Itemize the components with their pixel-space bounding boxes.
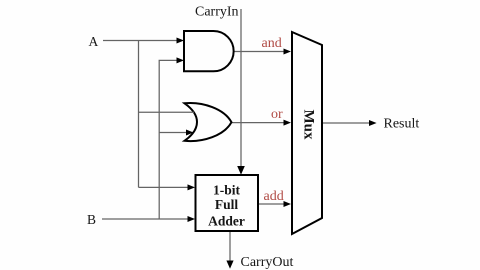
svg-text:add: add [264, 189, 284, 204]
wire B horizontal from label B to Full Adder input 2 [102, 218, 189, 220]
Mux (multiplexer) [292, 32, 322, 234]
svg-text:or: or [271, 107, 283, 122]
arrowhead CarryIn into Full Adder [237, 166, 245, 175]
svg-text:A: A [89, 34, 99, 49]
Full Adder label line 3 [208, 214, 245, 229]
Full Adder label line 1 [213, 183, 241, 198]
1-bit Full Adder box U1 [196, 175, 259, 231]
arrowhead Result [369, 120, 377, 126]
arrowhead and into Mux [284, 49, 292, 55]
svg-text:Result: Result [384, 117, 420, 132]
arrowhead CarryOut [226, 261, 233, 269]
wire and: AND gate output to Mux [233, 51, 284, 53]
svg-text:Adder: Adder [208, 214, 245, 229]
wire A branch to Full Adder input 1 [139, 186, 190, 188]
wire A vertical branch down [138, 41, 140, 188]
wire CarryIn vertical into Full Adder [240, 9, 242, 169]
AND gate [184, 31, 234, 71]
svg-text:Mux: Mux [301, 110, 317, 141]
Mux label [301, 110, 317, 141]
net label or [271, 107, 283, 122]
net label add [264, 189, 284, 204]
OR gate [185, 103, 232, 141]
arrowhead AND input 1 [177, 38, 185, 44]
node Result label [384, 117, 420, 132]
svg-text:B: B [87, 212, 96, 227]
svg-text:CarryIn: CarryIn [195, 5, 239, 20]
arrowhead or into Mux [284, 120, 292, 126]
svg-text:CarryOut: CarryOut [241, 255, 294, 270]
wire A horizontal from label A to AND gate input 1 [103, 40, 179, 42]
svg-text:Full: Full [215, 197, 239, 212]
wire A branch to OR gate input 1 [139, 111, 195, 113]
wire B vertical branch up [159, 60, 179, 219]
Full Adder label line 2 [215, 197, 239, 212]
arrowhead Full Adder input 1 [188, 184, 196, 190]
wire add: Full Adder output to Mux [258, 203, 284, 205]
node B label [87, 212, 96, 227]
svg-text:1-bit: 1-bit [213, 183, 241, 198]
wire Result from Mux output [323, 122, 371, 124]
node CarryIn label [195, 5, 239, 20]
arrowhead AND input 2 [177, 57, 185, 63]
wire or: OR gate output to Mux [231, 122, 284, 124]
arrowhead Full Adder input B [188, 216, 196, 222]
svg-text:and: and [262, 36, 282, 51]
net label and [262, 36, 282, 51]
node CarryOut label [241, 255, 294, 270]
node A label [89, 34, 99, 49]
wire B branch to OR gate input 2 [159, 132, 187, 134]
wire CarryOut from Full Adder bottom [229, 232, 231, 262]
arrowhead add into Mux [284, 201, 292, 207]
arrowhead OR input 2 [186, 130, 194, 136]
